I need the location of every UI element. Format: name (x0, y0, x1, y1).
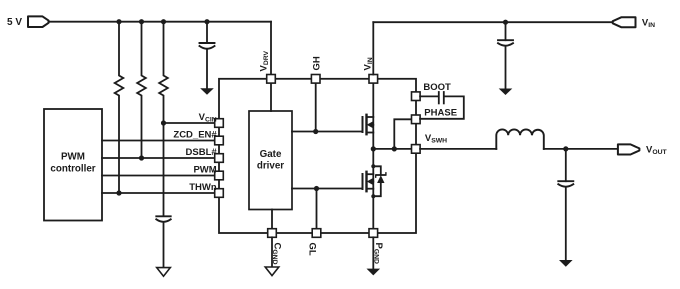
wire 5V rail drop to VDRV pin (270, 22, 272, 75)
node junction diode top (371, 164, 375, 168)
node junction R3 to VCIN (161, 120, 166, 125)
svg-text:PHASE: PHASE (424, 107, 457, 118)
wire VDRV pin to gate driver (270, 83, 272, 111)
node junction switch / phase branch (392, 146, 397, 151)
svg-text:driver: driver (257, 161, 284, 172)
5V supply tag (28, 16, 49, 27)
wire HS gate row (292, 131, 362, 133)
inductor L1 (496, 129, 544, 149)
node junction diode bottom (371, 194, 375, 198)
wire switch node down to LS drain (372, 149, 374, 229)
pin VIN (369, 75, 378, 84)
node junction R1 to THWn (116, 190, 121, 195)
pin DSBL# (215, 154, 224, 163)
wire VCIN branch down to C3 (163, 123, 165, 216)
svg-text:PWM: PWM (193, 164, 216, 175)
svg-text:VIN: VIN (642, 17, 655, 29)
capacitor C2 (VIN input) (498, 22, 513, 88)
svg-text:VDRV: VDRV (259, 50, 271, 71)
wire phase branch (394, 119, 411, 149)
ground (CGND, open) (265, 267, 279, 276)
ground (PGND, filled) (367, 269, 381, 276)
wire BOOT pin to boot cap (420, 95, 438, 97)
pin THWn (215, 189, 224, 198)
node junction R2 to DSBL# (139, 155, 144, 160)
gate driver box (249, 111, 292, 210)
wire VIN rail (373, 21, 613, 23)
node junction C2 top (503, 20, 508, 25)
wire inductor to VOUT (544, 148, 618, 150)
pin VCIN (215, 119, 224, 128)
resistor R1 (115, 22, 124, 193)
svg-text:VSWH: VSWH (425, 133, 447, 145)
PWM controller U2 (44, 109, 102, 221)
wire DSBL# row (102, 157, 215, 159)
svg-text:DSBL#: DSBL# (186, 147, 218, 158)
resistor R2 (137, 22, 146, 158)
capacitor C1 (5V decoupling) (200, 22, 215, 89)
pin CGND (268, 229, 277, 238)
wire 5V rail (49, 21, 272, 23)
svg-text:VCIN: VCIN (199, 112, 217, 124)
VIN terminal tag (613, 17, 636, 27)
node junction R3 top (161, 19, 166, 24)
ground (5V cap, filled) (200, 88, 214, 95)
capacitor C5 (bootstrap) (439, 92, 444, 103)
svg-text:GH: GH (312, 56, 323, 70)
node junction GH gate (313, 129, 318, 134)
VOUT terminal tag (618, 144, 640, 154)
svg-text:5 V: 5 V (7, 17, 22, 28)
resistor R3 (159, 22, 168, 123)
node junction R2 top (139, 19, 144, 24)
svg-text:BOOT: BOOT (423, 82, 451, 93)
ground (VIN cap, filled) (499, 89, 513, 96)
pin GL (312, 229, 321, 238)
ground (VCIN cap, open) (157, 268, 171, 277)
node junction C4 top (563, 146, 568, 151)
wire ZCD_EN# row (102, 140, 215, 142)
wire PWM row (102, 175, 215, 177)
wire VCIN row (164, 122, 215, 124)
pin PHASE (412, 115, 421, 124)
svg-text:VIN: VIN (363, 57, 375, 70)
pin PWM (215, 171, 224, 180)
wire switch node row (373, 148, 411, 150)
capacitor C4 (output) (558, 149, 573, 260)
svg-text:VOUT: VOUT (646, 145, 668, 157)
svg-text:ZCD_EN#: ZCD_EN# (173, 129, 217, 140)
wire GH pin drop to HS gate row (315, 83, 317, 131)
node junction GL gate (314, 186, 319, 191)
transistor Q1 (high-side NMOS) (363, 115, 374, 134)
ground (VOUT cap, filled) (559, 260, 573, 267)
wire gate driver to CGND pin (271, 210, 273, 229)
wire VIN rail drop to VIN pin (372, 22, 374, 74)
wire PGND to ground (372, 237, 374, 268)
pin VSWH (412, 145, 421, 154)
node junction switch / power vertical (371, 146, 376, 151)
wire boot cap to phase loop (420, 96, 464, 118)
svg-text:controller: controller (50, 164, 95, 175)
wire CGND to ground (271, 237, 273, 267)
wire GL pin rise to LS gate row (316, 189, 318, 229)
pin GH (311, 75, 320, 84)
svg-text:THWn: THWn (189, 182, 217, 193)
svg-text:PWM: PWM (61, 152, 85, 163)
node junction C1 top (204, 19, 209, 24)
pin ZCD_EN# (215, 136, 224, 145)
wire VSWH to inductor (420, 148, 496, 150)
pin BOOT (412, 92, 421, 101)
pin PGND (369, 229, 378, 238)
svg-text:Gate: Gate (260, 149, 282, 160)
capacitor C3 (VCIN decoupling) (156, 216, 170, 267)
node junction R1 top (116, 19, 121, 24)
transistor Q2 (low-side NMOS) (363, 172, 374, 191)
diode D1 (body diode) (373, 166, 386, 196)
wire LS gate row (292, 188, 362, 190)
pin VDRV (267, 75, 276, 84)
wire THWn row (102, 192, 215, 194)
wire VIN pin drop / power vertical (372, 83, 374, 149)
svg-text:GL: GL (307, 243, 318, 256)
power stage outer box U3 (219, 79, 416, 233)
